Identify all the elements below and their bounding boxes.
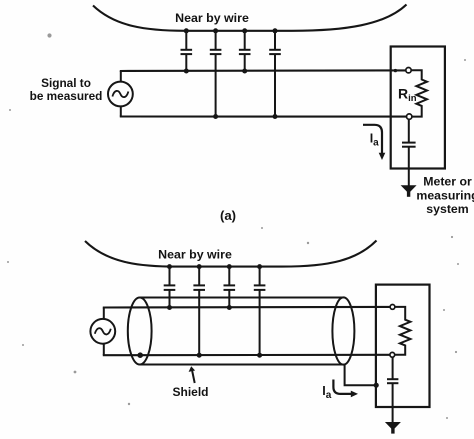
wire: bottom signal conductor (a)	[120, 115, 407, 117]
svg-text:be measured: be measured	[30, 89, 103, 103]
node: C4 top junction	[273, 28, 278, 33]
resistor Rin	[411, 70, 427, 116]
node: C3 bottom junction	[242, 69, 247, 74]
stray capacitor C8 (b)	[224, 267, 236, 308]
stray capacitor C1 (a)	[181, 31, 193, 71]
node: C6 bottom junction	[167, 305, 172, 310]
svg-text:Near by wire: Near by wire	[175, 11, 249, 25]
wire: source top lead (b)	[103, 308, 105, 319]
wire: source bottom lead (b)	[103, 344, 105, 356]
wire: shield drain to meter case (b)	[345, 365, 376, 386]
svg-text:Shield: Shield	[172, 385, 208, 399]
node: C8 top junction	[227, 264, 232, 269]
terminal: input low (b)	[390, 352, 395, 357]
node: C6 top junction	[167, 264, 172, 269]
node: C7 bottom junction	[197, 353, 202, 358]
capacitor C5 meter input (a)	[402, 143, 416, 147]
wire: source bottom lead (a)	[120, 106, 122, 116]
svg-text:Meter or: Meter or	[423, 175, 472, 189]
terminal: input high (b)	[390, 305, 395, 310]
meter case (b)	[376, 285, 430, 407]
node: C7 top junction	[197, 264, 202, 269]
shield right ellipse	[332, 297, 354, 364]
node: C2 bottom junction	[213, 114, 218, 119]
stray capacitor C2 (a)	[210, 31, 222, 117]
wire: input low to meter capacitor (a)	[408, 120, 410, 143]
node: C1 bottom junction	[184, 69, 189, 74]
wire: meter capacitor to ground (b)	[392, 383, 394, 422]
terminal: input low (a)	[407, 114, 412, 119]
wire: source top lead (a)	[120, 71, 122, 82]
ground (a)	[401, 185, 417, 193]
AC source Vs (a)	[108, 82, 133, 107]
resistor R (meter input, b)	[395, 307, 410, 355]
shield cylinder top outline	[140, 297, 344, 299]
AC source Vs (b)	[90, 319, 115, 344]
node: C4 bottom junction	[273, 114, 278, 119]
wire: bottom signal conductor (b)	[103, 354, 390, 357]
ground (b)	[385, 422, 401, 430]
shield left ellipse	[128, 298, 152, 365]
node: C3 top junction	[242, 28, 247, 33]
node: C9 top junction	[257, 264, 262, 269]
wire: top signal conductor (b)	[103, 306, 390, 309]
stray capacitor C6 (b)	[164, 267, 176, 308]
nearby wire (a)	[93, 5, 407, 31]
shield pointer arrow	[192, 371, 195, 383]
capacitor C10 meter input (b)	[387, 379, 398, 383]
svg-text:Signal to: Signal to	[41, 76, 91, 90]
meter case (a)	[391, 47, 445, 169]
terminal: input high (a)	[406, 68, 411, 73]
node: C9 bottom junction	[257, 353, 262, 358]
wire: input low to meter capacitor (b)	[392, 357, 394, 379]
wire: meter capacitor to ground (a)	[408, 147, 410, 186]
shield cylinder bottom outline	[140, 364, 344, 366]
stray capacitor C4 (a)	[269, 31, 281, 117]
stray capacitor C9 (b)	[254, 267, 266, 356]
current arrow Ia (a)	[363, 125, 382, 153]
current arrow Ia (b)	[333, 380, 351, 394]
svg-text:(a): (a)	[220, 208, 236, 223]
stray capacitor C3 (a)	[239, 31, 251, 71]
svg-text:system: system	[426, 202, 468, 216]
node: C8 bottom junction	[227, 305, 232, 310]
node: drain to case junction	[374, 383, 379, 388]
svg-text:Near by wire: Near by wire	[158, 247, 232, 261]
nearby wire (b)	[85, 241, 377, 267]
svg-text:measuring: measuring	[416, 188, 474, 202]
node: C2 top junction	[213, 28, 218, 33]
stray capacitor C7 (b)	[193, 267, 205, 356]
node: shield to low-wire junction	[137, 352, 143, 358]
node: C1 top junction	[184, 28, 189, 33]
node: case entry dot (a)	[394, 69, 397, 72]
wire: top signal conductor (a)	[120, 69, 406, 72]
